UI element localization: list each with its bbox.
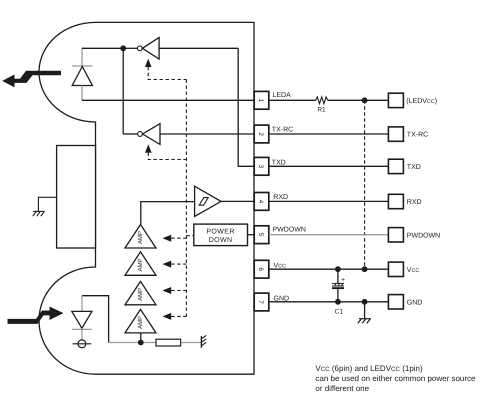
powerdown arrow into AMP3 (162, 287, 171, 294)
wire bottom bias (gray) (109, 342, 156, 344)
inverter U1 output wire (123, 47, 137, 49)
svg-text:C1: C1 (335, 309, 344, 316)
amplifier AMP3 (125, 281, 156, 304)
wire PWDOWN external (gray) (269, 234, 389, 236)
wire POWER DOWN to pin5 (248, 234, 255, 236)
wire LEDA (82, 99, 254, 101)
svg-text:TX-RC: TX-RC (272, 126, 293, 133)
svg-text:can be used on either common p: can be used on either common power sourc… (315, 374, 476, 383)
dashed wire to AMP4 (171, 315, 186, 317)
svg-text:DOWN: DOWN (209, 237, 233, 244)
inverter U2 bubble (138, 132, 143, 137)
svg-text:PWDOWN: PWDOWN (407, 232, 440, 239)
amplifier AMP1 (125, 225, 156, 249)
svg-text:(LEDVCC): (LEDVCC) (406, 97, 437, 105)
pin 6 box (254, 260, 269, 278)
wire RXD external (269, 200, 389, 202)
node Vcc / dashed junction (362, 266, 368, 272)
dashed wire to AMP2 (171, 263, 186, 265)
resistor R2 (156, 339, 181, 346)
ground lead (364, 302, 366, 319)
pad PWDOWN (388, 228, 403, 242)
wire junction to inverter2 output (122, 48, 124, 134)
inverter U1 (142, 38, 159, 60)
inverter U2 (143, 124, 160, 145)
LED D1 bottom stub (gray) (81, 86, 83, 101)
powerdown arrow into U1 (145, 59, 152, 67)
svg-text:5: 5 (257, 233, 264, 237)
comparator U3 (195, 186, 221, 216)
POWER DOWN block (194, 224, 248, 246)
comparator input wire (141, 202, 195, 225)
powerdown arrow into U2 (145, 144, 152, 152)
svg-text:GND: GND (407, 299, 423, 306)
wire GND external (269, 301, 389, 303)
inverter U1 bubble (137, 46, 142, 51)
LED D1 cathode bar (gray) (72, 65, 92, 67)
node Vcc / C1 junction (335, 266, 341, 272)
wire resistor to chassis (gray) (181, 342, 202, 344)
photodiode terminal crossbar (73, 343, 92, 345)
svg-text:3: 3 (257, 164, 264, 168)
capacitor C1 top lead (337, 269, 339, 283)
svg-text:7: 7 (257, 300, 264, 304)
pad (LEDVcc) (388, 93, 403, 107)
svg-text:LEDA: LEDA (273, 92, 292, 99)
powerdown arrow into AMP2 (162, 261, 171, 268)
module outline (39, 22, 254, 374)
pin 7 box (254, 293, 269, 311)
node AMP4 bias junction (138, 340, 144, 346)
received light arrow (8, 307, 64, 324)
dashed powerdown bus (185, 80, 187, 317)
svg-text:POWER: POWER (206, 229, 234, 236)
ground (shield) (33, 211, 45, 216)
dashed wire U2 arrow elbow (148, 153, 186, 160)
chassis ground (201, 335, 206, 347)
shield plate rectangle (57, 146, 96, 249)
hysteresis symbol (199, 198, 208, 206)
svg-text:AMP: AMP (137, 258, 144, 271)
wire LED top to junction (82, 47, 123, 49)
dashed wire LEDVcc to Vcc (364, 100, 366, 269)
LED D1 (72, 67, 92, 86)
amplifier AMP4 (125, 309, 156, 333)
powerdown arrow into AMP4 (162, 313, 171, 320)
node GND / ground junction (362, 299, 368, 305)
dashed wire to AMP3 (171, 290, 186, 292)
powerdown arrow into AMP1 (162, 235, 171, 242)
svg-text:2: 2 (257, 132, 264, 136)
svg-text:TXD: TXD (272, 159, 286, 166)
svg-text:1: 1 (257, 98, 264, 102)
wire Vcc external (269, 268, 389, 270)
dashed wire U1 arrow elbow (148, 67, 186, 80)
svg-text:VCC: VCC (407, 267, 420, 274)
wire TX-RC external (269, 133, 389, 135)
wire TXD external (269, 165, 389, 167)
photodiode PD1 (72, 311, 92, 328)
wire LEDA external left (269, 99, 316, 101)
svg-text:or different one: or different one (315, 384, 369, 393)
svg-text:VCC (6pin) and LEDVCC (1pin): VCC (6pin) and LEDVCC (1pin) (315, 364, 423, 373)
resistor R1 (316, 97, 328, 104)
wire RXD (221, 200, 254, 202)
photodiode cathode bar (gray) (72, 328, 92, 330)
ground (GND rail) (358, 319, 371, 324)
pin 4 box (254, 193, 269, 211)
dashed stub to POWER DOWN (186, 235, 193, 237)
svg-text:6: 6 (257, 267, 264, 271)
node R1 / LEDVcc junction (362, 97, 368, 103)
svg-text:PWDOWN: PWDOWN (273, 226, 306, 233)
wire TX-RC to inverter U2 input (160, 133, 254, 135)
pin 1 box (254, 91, 269, 109)
wire inverter U1 input to TXD riser (159, 47, 238, 49)
pin 5 box (254, 226, 269, 244)
LED D1 anode stub (gray) (81, 48, 83, 66)
svg-text:TX-RC: TX-RC (407, 132, 428, 139)
svg-text:AMP: AMP (137, 316, 144, 329)
pad TXD (388, 159, 403, 173)
emitted light arrow (2, 71, 61, 88)
pad RXD (388, 194, 403, 208)
photodiode stub (gray) (81, 329, 83, 340)
svg-text:VCC: VCC (274, 262, 287, 269)
wire TXD riser (238, 48, 254, 166)
svg-text:4: 4 (257, 200, 264, 204)
svg-text:RXD: RXD (407, 199, 422, 206)
node LED drive junction (120, 45, 126, 51)
photodiode terminal circle (78, 340, 86, 348)
amplifier AMP2 (125, 252, 156, 275)
capacitor C1 bottom lead (337, 289, 339, 302)
svg-text:AMP: AMP (137, 288, 144, 301)
capacitor C1 positive plate (hatched) (332, 283, 344, 286)
svg-text:RXD: RXD (273, 194, 288, 201)
pad Vcc (388, 262, 403, 276)
svg-text:AMP: AMP (137, 231, 144, 244)
inverter U2 output wire (123, 133, 137, 135)
pin 2 box (254, 125, 269, 143)
svg-text:R1: R1 (317, 107, 326, 114)
pad GND (388, 295, 403, 309)
photodiode top wire (82, 296, 109, 343)
svg-text:+: + (341, 277, 345, 284)
dashed wire to AMP1 (171, 237, 186, 239)
shield ground wire (38, 197, 56, 211)
pad TX-RC (388, 127, 403, 141)
pin 3 box (254, 157, 269, 175)
node GND / C1 junction (335, 299, 341, 305)
svg-text:TXD: TXD (407, 164, 421, 171)
wire AMP4 to bias (140, 333, 142, 343)
capacitor C1 negative plate (332, 287, 344, 289)
wire R1 to LEDVcc pad (328, 99, 389, 101)
